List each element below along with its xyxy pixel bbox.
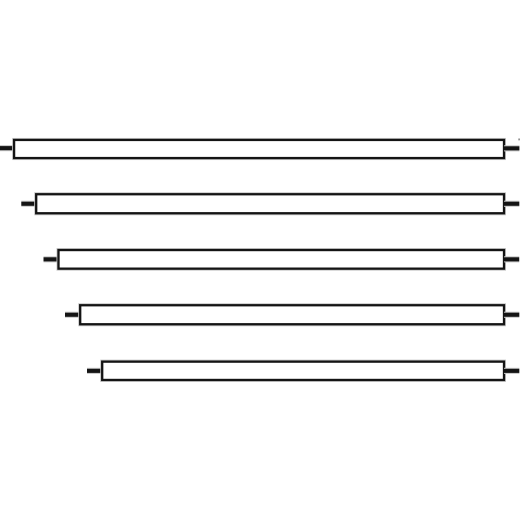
wire left lead of R4	[65, 312, 80, 318]
wire right lead of R5	[504, 368, 519, 374]
resistor R2	[36, 194, 504, 213]
resistor R4	[80, 305, 504, 324]
resistor R3	[59, 250, 505, 269]
wire right lead of R1	[504, 145, 519, 151]
wire right lead of R3	[504, 256, 519, 262]
wire left lead of R1	[0, 145, 14, 151]
resistor R1	[14, 140, 504, 158]
resistor R5	[102, 362, 504, 380]
wire left lead of R5	[87, 368, 102, 374]
wire right lead of R2	[504, 201, 519, 207]
wire left lead of R2	[21, 201, 36, 207]
wire fragment at right edge above R1 lead	[518, 138, 520, 140]
wire right lead of R4	[504, 312, 519, 318]
wire left lead of R3	[44, 256, 59, 262]
